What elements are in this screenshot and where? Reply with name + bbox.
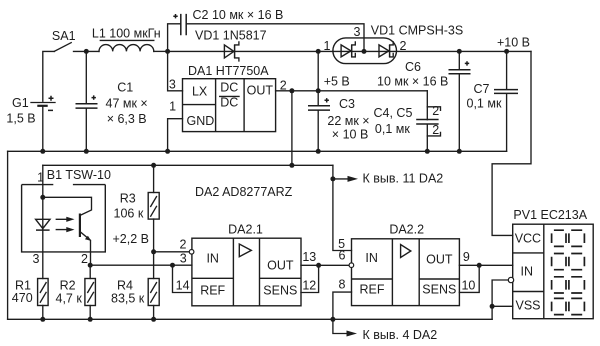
svg-text:470: 470	[12, 291, 33, 305]
svg-text:DC: DC	[220, 96, 238, 110]
svg-text:12: 12	[302, 279, 316, 293]
wire: B1 pin 2 to DA2.1 pin 3	[88, 263, 192, 268]
diode assembly VD1 CMPSH-3S	[324, 24, 531, 64]
IC DA1 HT7750A	[169, 64, 287, 132]
node: junction C1 branch on top rail	[84, 49, 89, 103]
svg-text:C2 10 мк × 16 В: C2 10 мк × 16 В	[193, 8, 284, 22]
capacitor C2	[168, 8, 364, 51]
optocoupler B1 TSW-10	[22, 165, 111, 278]
svg-text:6: 6	[339, 248, 346, 262]
wire: rail B down to DA2.2 pin 5	[333, 165, 352, 250]
wire: bottom ground rail	[8, 317, 493, 322]
wire: left frame down to bottom rail	[7, 151, 9, 319]
svg-text:C1: C1	[117, 81, 133, 95]
wire: +2,2V to DA2.1 pin 2	[154, 250, 194, 255]
capacitor C7	[467, 49, 519, 151]
wire: L1 to LX junction	[154, 49, 170, 54]
display PV1 EC213A	[508, 208, 593, 319]
wire: LX pin 3 feed	[168, 51, 183, 90]
svg-text:DA2 AD8277ARZ: DA2 AD8277ARZ	[195, 185, 293, 199]
resistor R1	[12, 279, 48, 320]
svg-text:× 6,3 В: × 6,3 В	[107, 112, 147, 126]
svg-text:VCC: VCC	[515, 231, 541, 245]
svg-text:К выв. 11 DA2: К выв. 11 DA2	[363, 171, 444, 185]
svg-text:LX: LX	[192, 84, 208, 98]
svg-text:1: 1	[324, 39, 331, 53]
svg-text:2: 2	[432, 123, 439, 137]
svg-text:REF: REF	[200, 283, 225, 297]
svg-text:83,5 к: 83,5 к	[111, 291, 145, 305]
wire: +10V feed to PV1 VCC	[492, 51, 531, 235]
svg-text:2: 2	[400, 39, 407, 53]
svg-text:C3: C3	[339, 97, 355, 111]
svg-text:SENS: SENS	[422, 283, 456, 297]
svg-text:13: 13	[302, 250, 316, 264]
svg-text:DC: DC	[220, 80, 238, 94]
IC label DA2 AD8277ARZ	[195, 185, 293, 199]
svg-text:VD1 1N5817: VD1 1N5817	[195, 29, 267, 43]
svg-text:3: 3	[180, 251, 187, 265]
svg-text:+10 В: +10 В	[497, 36, 530, 50]
tap К выв. 4 DA2	[333, 319, 437, 342]
svg-text:2: 2	[180, 238, 187, 252]
wire: PV1 IN circle to ground	[490, 280, 513, 319]
svg-text:10 мк × 16 В: 10 мк × 16 В	[377, 75, 448, 89]
capacitors C4, C5	[374, 91, 441, 152]
node +5 V	[324, 75, 350, 89]
switch SA1	[52, 29, 99, 51]
svg-text:3: 3	[33, 252, 40, 266]
wire: GND pin 1 to ground rail	[168, 119, 183, 152]
svg-text:C7: C7	[474, 82, 490, 96]
svg-text:G1: G1	[12, 96, 29, 110]
diode VD1 1N5817	[168, 29, 319, 61]
wire: DA2.2 SENS pin 10	[459, 265, 479, 292]
svg-text:0,1 мк: 0,1 мк	[375, 122, 410, 136]
capacitor C6	[377, 49, 471, 151]
svg-text:SENS: SENS	[263, 283, 297, 297]
svg-text:OUT: OUT	[247, 83, 274, 97]
svg-text:C6: C6	[405, 60, 421, 74]
svg-text:VSS: VSS	[515, 299, 540, 313]
svg-text:К выв. 4 DA2: К выв. 4 DA2	[363, 328, 438, 342]
svg-text:IN: IN	[206, 251, 219, 265]
svg-text:14: 14	[176, 279, 190, 293]
svg-text:DA2.2: DA2.2	[389, 223, 424, 237]
svg-text:1,5 В: 1,5 В	[6, 112, 35, 126]
svg-text:PV1 EC213A: PV1 EC213A	[513, 208, 587, 222]
resistor R2	[56, 265, 96, 319]
svg-text:9: 9	[463, 250, 470, 264]
wire: DA2.1 OUT pin 13	[301, 263, 349, 268]
svg-text:OUT: OUT	[267, 259, 294, 273]
display digit segments	[552, 230, 585, 314]
tap К выв. 11 DA2	[330, 171, 443, 185]
op-amp DA2.2	[338, 223, 475, 306]
wire: ground rail A	[8, 149, 507, 154]
svg-text:OUT: OUT	[426, 253, 453, 267]
svg-text:2: 2	[432, 104, 439, 118]
svg-text:2: 2	[81, 252, 88, 266]
svg-text:8: 8	[339, 278, 346, 292]
svg-text:+2,2 В: +2,2 В	[113, 232, 150, 246]
wire: DA2.2 REF pin 8 to bottom rail	[333, 292, 352, 319]
wire: DA2.2 OUT pin 9 to PV1	[459, 263, 512, 268]
svg-text:47 мк ×: 47 мк ×	[106, 97, 148, 111]
wire: OUT down to +5V rail B	[291, 91, 293, 166]
svg-text:REF: REF	[360, 283, 385, 297]
wire: +5V distribution rail B	[43, 163, 333, 168]
svg-text:GND: GND	[187, 114, 215, 128]
wire: DA2.1 pin 14 REF jog	[173, 265, 192, 292]
battery G1	[6, 96, 55, 152]
wire: DA2.1 SENS pin 12	[301, 265, 319, 292]
svg-text:B1 TSW-10: B1 TSW-10	[47, 168, 111, 182]
node: +5V feed junction on top rail	[316, 49, 333, 91]
svg-text:+5 В: +5 В	[324, 75, 350, 89]
svg-text:DA1 HT7750A: DA1 HT7750A	[188, 64, 269, 78]
svg-text:L1 100 мкГн: L1 100 мкГн	[92, 26, 161, 40]
svg-text:1: 1	[169, 100, 176, 114]
svg-text:22 мк ×: 22 мк ×	[327, 114, 369, 128]
svg-text:IN: IN	[365, 251, 378, 265]
svg-text:VD1 CMPSH-3S: VD1 CMPSH-3S	[371, 24, 463, 38]
resistor R4	[111, 252, 159, 319]
svg-text:3: 3	[169, 78, 176, 92]
svg-text:106 к: 106 к	[114, 207, 144, 221]
svg-text:DA2.1: DA2.1	[228, 222, 263, 236]
svg-text:IN: IN	[521, 265, 534, 279]
svg-text:0,1 мк: 0,1 мк	[467, 96, 502, 110]
svg-text:10: 10	[461, 279, 475, 293]
capacitor C3	[308, 91, 370, 152]
inductor L1	[92, 26, 161, 51]
svg-text:3: 3	[354, 25, 361, 39]
svg-text:SA1: SA1	[52, 29, 76, 43]
node +2,2 V	[113, 232, 157, 254]
svg-text:× 10 В: × 10 В	[332, 127, 369, 141]
wire: top rail from G1 to SA1 left contact	[43, 51, 55, 101]
svg-text:4,7 к: 4,7 к	[56, 291, 83, 305]
resistor R3	[114, 165, 160, 252]
svg-text:R3: R3	[120, 192, 136, 206]
node +10 V	[497, 36, 530, 50]
op-amp DA2.1	[176, 222, 317, 305]
svg-text:C4, C5: C4, C5	[374, 106, 413, 120]
wire: OUT pin 2 +5V line	[276, 88, 428, 93]
capacitor C1	[76, 81, 148, 152]
